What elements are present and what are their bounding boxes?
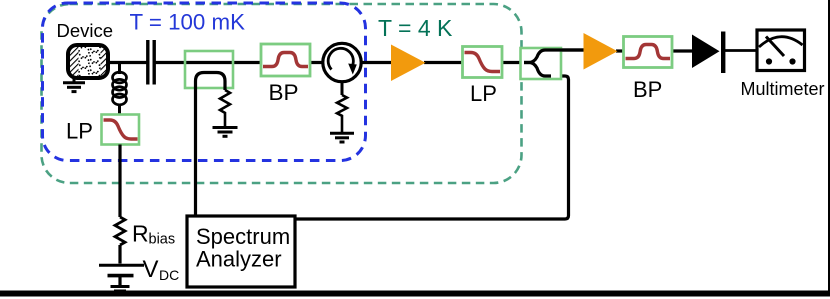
diode D1 (692, 32, 725, 74)
T = 100 mK region (blue dashed box) (43, 3, 366, 161)
splitter fork wires (524, 50, 584, 76)
wire: amplifier A1 to LP filter (424, 61, 463, 64)
svg-text:LP: LP (470, 81, 497, 106)
wire: LP filter to splitter (501, 61, 529, 64)
wire: BP2 to diode (671, 49, 693, 52)
capacitor (coupling capacitor) (148, 40, 154, 85)
label: Spectrum Analyzer (196, 224, 290, 272)
resistor on coupled port (220, 90, 230, 127)
label: BP (first band-pass filter) (269, 80, 299, 105)
device (hatched box with lattice) (68, 42, 108, 84)
label: T = 4 K (378, 15, 453, 41)
label: Multimeter (741, 79, 825, 99)
amplifier A2 (orange triangle) (584, 33, 618, 70)
svg-text:Device: Device (57, 20, 114, 41)
wire: diode to multimeter (725, 49, 758, 52)
svg-text:bias: bias (149, 232, 176, 248)
coupled line of coupler down to spectrum analyzer (196, 73, 226, 217)
wire: amplifier A2 to band-pass filter BP2 (616, 49, 624, 52)
low-pass filter LP2 (green box) (463, 47, 503, 78)
label: LP (second low-pass filter) (470, 81, 497, 106)
circulator stem to resistor (341, 80, 344, 95)
inductor (bias tee coil) (113, 63, 127, 115)
battery VDC (99, 265, 144, 286)
wire: device output to capacitor (106, 61, 147, 64)
label: BP (second band-pass filter) (633, 77, 662, 102)
svg-text:DC: DC (159, 267, 179, 283)
ground of circulator resistor (330, 133, 354, 142)
multimeter (meter box) (757, 30, 805, 71)
directional coupler (green box) (185, 51, 233, 88)
ground of coupler resistor (213, 128, 238, 137)
low-pass filter LP1 (green box) (102, 115, 140, 145)
ground of battery (111, 287, 130, 295)
T = 4 K region (teal dashed box) (42, 4, 522, 183)
splitter (green box) (521, 48, 562, 79)
label: Device (57, 20, 114, 41)
svg-text:T = 100 mK: T = 100 mK (130, 10, 246, 35)
label: VDC (143, 256, 180, 283)
resistor Rbias (115, 217, 125, 245)
BP1 response curve (263, 53, 308, 67)
wire: capacitor to circulator (through coupler and BP) (154, 61, 325, 64)
svg-text:Analyzer: Analyzer (196, 247, 282, 272)
wire: Rbias to battery (118, 245, 121, 264)
wire: device to ground (73, 78, 76, 83)
label: LP (first low-pass filter) (66, 119, 93, 144)
band-pass filter BP1 (green box) (261, 44, 310, 76)
label: Rbias (132, 221, 175, 248)
svg-text:LP: LP (66, 119, 93, 144)
label: T = 100 mK (130, 10, 246, 35)
spectrum analyzer box (187, 216, 295, 287)
svg-text:R: R (132, 221, 149, 247)
wire: splitter lower branch down to spectrum analyzer (295, 76, 569, 219)
resistor on circulator port (337, 95, 347, 133)
wire: splitter upper branch to amplifier A2 (540, 48, 584, 51)
circulator U1 (circle with rotation arrow) (323, 43, 361, 81)
svg-text:Spectrum: Spectrum (196, 224, 290, 249)
svg-text:BP: BP (633, 77, 662, 102)
wire: circulator to amplifier A1 (359, 61, 392, 64)
band-pass filter BP2 (green box) (624, 37, 673, 68)
LP1 response curve (104, 120, 138, 139)
svg-text:T = 4 K: T = 4 K (378, 15, 453, 41)
ground of device (63, 83, 85, 92)
amplifier A1 (orange triangle) (391, 45, 426, 82)
wire: LP1 down to bias resistor (118, 145, 121, 218)
LP2 response curve (465, 53, 501, 72)
BP2 response curve (626, 45, 671, 59)
svg-text:Multimeter: Multimeter (741, 79, 825, 99)
svg-text:BP: BP (269, 80, 299, 105)
svg-text:V: V (143, 256, 159, 283)
